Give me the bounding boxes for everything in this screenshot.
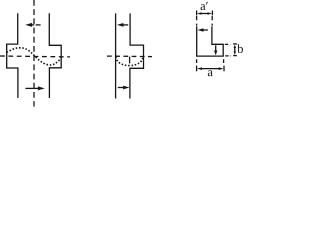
figure 1 bottom arrowhead <box>38 86 45 90</box>
label b <box>237 44 243 53</box>
figure 3 a dimension arrowheads <box>197 67 202 70</box>
figure 1 horizontal dashed centerline <box>0 55 70 58</box>
figure 3 a dimension end ticks <box>196 66 198 72</box>
figure 3 L-shape outline <box>197 26 224 56</box>
figure 3 a' dimension arrowheads <box>197 12 201 15</box>
figure 2 dotted arc below centerline <box>116 57 143 66</box>
figure 1 top arrow shaft (points left), broken at centerline <box>31 24 34 26</box>
figure 2 top arrow shaft (points left) <box>123 24 128 26</box>
figure 2 top arrowhead <box>117 23 124 27</box>
figure 3 a' dimension shaft <box>201 13 209 15</box>
figure 3 b dimension T-bars <box>233 43 237 45</box>
figure 3 down arrowhead <box>214 51 217 56</box>
label a <box>208 70 213 76</box>
figure 2 bottom arrow shaft (points right) <box>118 87 124 89</box>
figure 3 b dimension shaft <box>234 48 236 52</box>
figure 3 left arrow arrowhead <box>198 28 204 32</box>
figure 3 down arrow shaft inside step <box>215 45 217 51</box>
figure 2 horizontal dashed centerline <box>107 55 152 58</box>
figure 2 right edge with step (joggle) <box>130 13 144 98</box>
figure 2 short vertical tick above step (bottom-stem right edge) <box>129 57 131 64</box>
figure 3 dashed extension lines below shape for a <box>196 59 198 65</box>
figure 3 a dimension shaft <box>201 68 220 70</box>
figure 3 a' dimension end ticks <box>196 11 198 16</box>
figure 1 outline right half (top stem right, right arm, bottom stem right) <box>49 13 61 98</box>
figure 3 b dimension arrowheads <box>234 45 236 49</box>
figure 3 dashed extension lines below a' <box>196 16 198 26</box>
figure 3 left-pointing arrow shaft inside stem <box>203 29 208 31</box>
label a' <box>201 2 208 10</box>
figure 1 dotted S-curve shear line <box>7 48 62 65</box>
figure 3 b dimension extension dashes <box>225 43 231 45</box>
figure 2 bottom arrowhead <box>123 86 129 90</box>
figure 1 vertical dashed centerline <box>33 0 35 107</box>
figure 1 outline left half (top stem left, left arm, bottom stem left) <box>7 13 18 98</box>
figure 1 bottom arrow shaft (points right) <box>25 87 38 89</box>
figure 2 left edge line <box>115 13 117 98</box>
figure 1 top arrowhead <box>25 23 32 27</box>
